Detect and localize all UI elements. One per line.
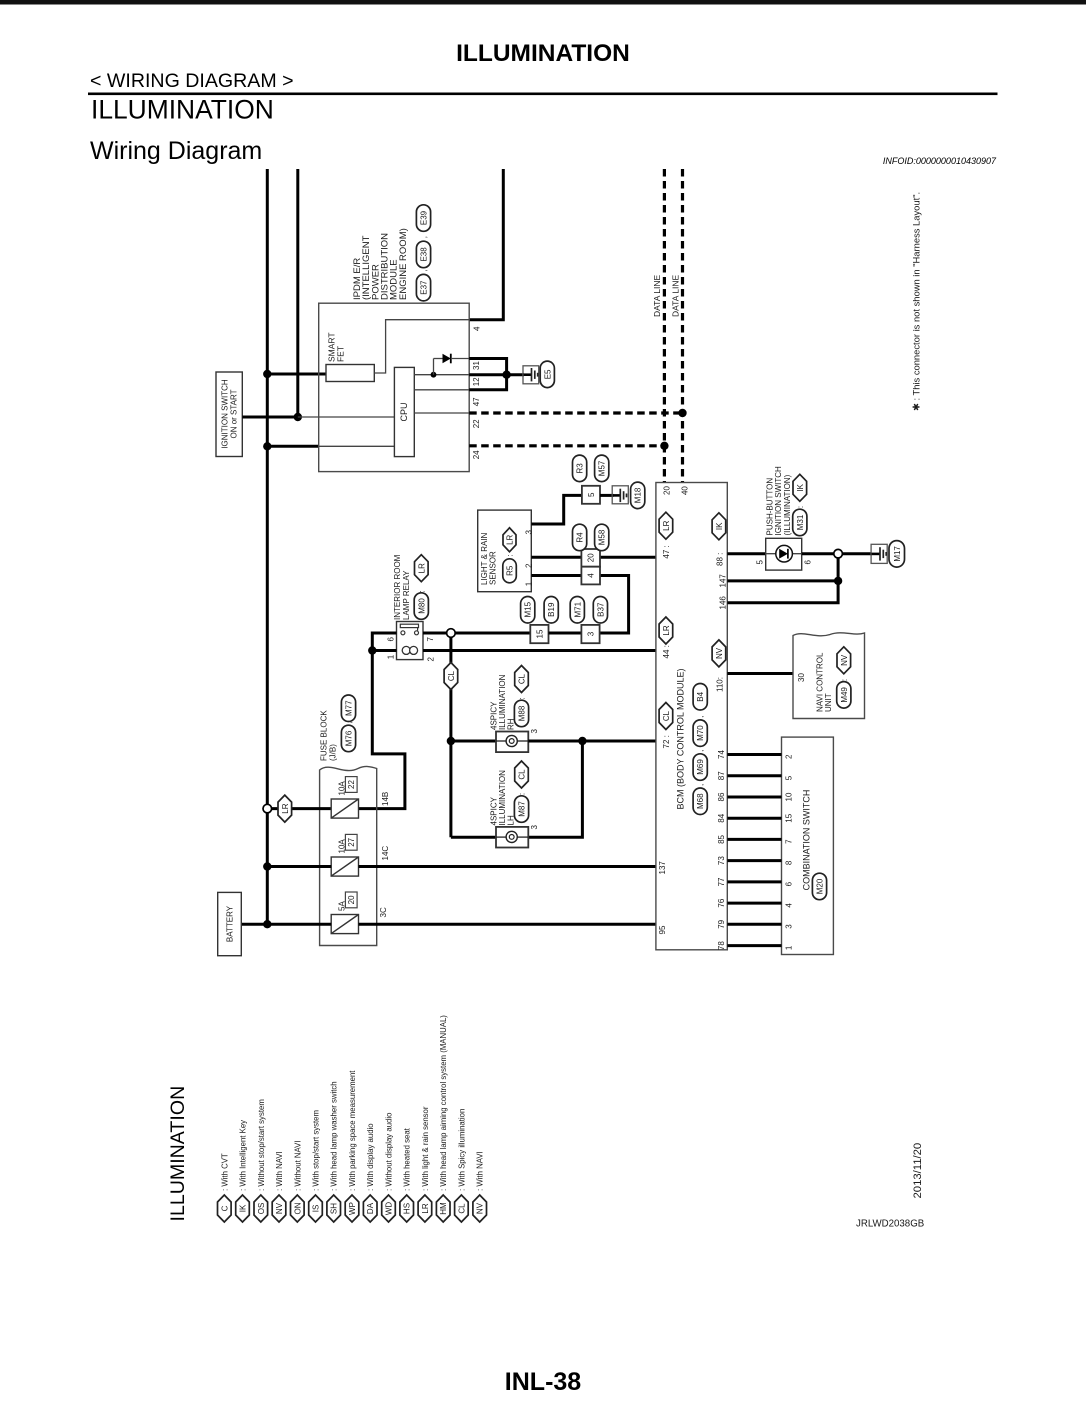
svg-text:M49: M49 [840, 687, 849, 703]
svg-text:ILLUMINATION: ILLUMINATION [456, 40, 630, 67]
splice open circle M17 [834, 549, 843, 558]
wire relay pin7 to connector 15 [423, 632, 530, 635]
node junction LH riser [578, 737, 586, 745]
svg-text:20: 20 [587, 553, 596, 562]
fuse block J/B outline [320, 766, 377, 945]
top border bar [0, 0, 1086, 5]
node junction spicy RH [447, 737, 455, 745]
svg-text:LR: LR [281, 803, 290, 813]
svg-text:3C: 3C [379, 907, 388, 917]
node junction battery/V1 [263, 920, 271, 928]
svg-text:IK: IK [796, 483, 805, 491]
connector R3 [573, 455, 587, 482]
svg-text:LR: LR [662, 625, 671, 635]
BCM connector list M68 M69 M70 B4 [693, 788, 707, 815]
svg-text:3: 3 [530, 825, 539, 830]
relay box M80 [397, 622, 424, 660]
svg-text:44 :: 44 : [662, 645, 671, 658]
svg-text:HS: HS [403, 1203, 412, 1214]
data line vertical 2 [681, 169, 684, 483]
svg-text:6: 6 [386, 637, 395, 642]
svg-text:(J/B): (J/B) [328, 744, 337, 761]
svg-text:IK: IK [715, 522, 724, 530]
connector M71 [570, 597, 584, 624]
wire relay feed down to fuse 14B [359, 651, 405, 809]
legend OS [254, 1195, 268, 1222]
battery box [218, 892, 242, 955]
svg-text:1: 1 [386, 654, 395, 659]
wire BCM 110 to NAVI [727, 672, 793, 675]
connector B19 [544, 597, 558, 624]
node junction data line 1 [660, 442, 668, 450]
svg-text:M76: M76 [345, 730, 354, 746]
svg-text:LR: LR [417, 563, 426, 573]
wire sensor pin1 [531, 574, 600, 577]
svg-text:M80: M80 [417, 598, 426, 614]
svg-text:NAVI CONTROL: NAVI CONTROL [815, 652, 824, 712]
svg-text:ILLUMINATION: ILLUMINATION [167, 1086, 189, 1222]
svg-text:E38: E38 [420, 247, 429, 262]
connector R5 : LR inside sensor [503, 559, 517, 583]
wire fuse 27 to BCM 137 [359, 865, 656, 868]
svg-text:: With Intelligent Key: : With Intelligent Key [239, 1120, 248, 1191]
svg-text:12: 12 [472, 377, 481, 386]
svg-text:JRLWD2038GB: JRLWD2038GB [856, 1219, 924, 1230]
node junction data line 2 [678, 409, 686, 417]
connector E5 [540, 361, 554, 388]
svg-text:,: , [696, 750, 705, 752]
svg-text:M70: M70 [696, 725, 705, 741]
svg-text:M88: M88 [518, 705, 527, 721]
svg-text:E39: E39 [420, 210, 429, 225]
wire V1 to fuse 27 [267, 865, 331, 868]
connector M17 [889, 541, 905, 568]
bold loop pins 31/12/47 [469, 359, 506, 390]
svg-text:2: 2 [525, 563, 534, 568]
wire ignition row into IPDM (CPU pin) [298, 416, 395, 418]
connector M80 : LR [414, 593, 428, 620]
wire relay pin6 [372, 633, 396, 651]
spicy illumination LH lamp [496, 827, 528, 848]
svg-text:27: 27 [347, 837, 356, 846]
svg-text:4: 4 [785, 903, 794, 908]
wire LH riser [528, 741, 582, 837]
wire CPU pin22 row [414, 412, 469, 414]
wire BCM 88 to push-button [727, 552, 765, 555]
svg-text:CL: CL [518, 673, 527, 684]
svg-text:IS: IS [312, 1205, 321, 1213]
svg-text:LR: LR [662, 520, 671, 530]
svg-text:8: 8 [785, 860, 794, 865]
combination switch box [782, 737, 834, 954]
wire CPU pin47 row [414, 389, 469, 391]
svg-text:B4: B4 [696, 691, 705, 701]
svg-text:< WIRING DIAGRAM >: < WIRING DIAGRAM > [90, 70, 294, 92]
svg-text:R4: R4 [576, 532, 585, 543]
svg-text:INL-38: INL-38 [505, 1368, 582, 1396]
wire BCM 146 riser [727, 554, 838, 603]
svg-text:24: 24 [472, 450, 481, 459]
svg-text:NV: NV [476, 1202, 485, 1214]
svg-text:M20: M20 [816, 878, 825, 894]
legend LR [418, 1195, 432, 1222]
connector E37 [416, 274, 430, 301]
svg-text:Wiring Diagram: Wiring Diagram [90, 137, 262, 165]
connector M57 [595, 455, 609, 482]
wire BCM 87 to switch 5 [727, 774, 781, 777]
svg-text::: : [506, 554, 515, 556]
wire color label CL [444, 663, 458, 690]
inline connector box 5 [582, 486, 600, 504]
svg-text:: With light & rain sensor: : With light & rain sensor [421, 1106, 430, 1191]
svg-text:: With display audio: : With display audio [366, 1123, 375, 1191]
wire to spicy RH lamp [451, 740, 496, 743]
wire relay pin2 to BCM 44 [423, 649, 656, 652]
legend DA [363, 1195, 377, 1222]
connector M76 , M77 [341, 725, 355, 752]
svg-text:76: 76 [717, 898, 726, 907]
svg-text:1: 1 [785, 945, 794, 950]
wire V1 row to CPU lower pin [267, 445, 318, 448]
svg-text::: : [518, 697, 527, 699]
svg-text:22: 22 [472, 419, 481, 428]
node junction V1 lower row [263, 442, 271, 450]
legend NV [272, 1195, 286, 1222]
svg-text:6: 6 [804, 560, 813, 565]
svg-text:FUSE BLOCK: FUSE BLOCK [320, 710, 329, 761]
ignition switch box [216, 372, 242, 457]
svg-text:77: 77 [717, 877, 726, 886]
fuse 10A 27 [331, 857, 358, 876]
svg-text:137: 137 [658, 861, 667, 875]
svg-text:: With stop/start system: : With stop/start system [312, 1110, 321, 1191]
svg-text:95: 95 [658, 925, 667, 934]
legend IS [309, 1195, 323, 1222]
svg-text:CL: CL [518, 769, 527, 780]
svg-text:DATA LINE: DATA LINE [670, 274, 680, 317]
connector R4 [573, 524, 587, 551]
svg-text:: Without NAVI: : Without NAVI [293, 1140, 302, 1191]
svg-text:LR: LR [421, 1203, 430, 1213]
svg-text:CL: CL [447, 670, 456, 681]
svg-text:86: 86 [717, 792, 726, 801]
svg-text:(ILLUMINATION): (ILLUMINATION) [783, 474, 792, 535]
svg-text:SH: SH [330, 1203, 339, 1214]
svg-text:LAMP RELAY: LAMP RELAY [402, 570, 411, 620]
connector E39 [416, 205, 430, 232]
svg-text:84: 84 [717, 813, 726, 822]
svg-text:R5: R5 [506, 565, 515, 576]
IPDM E/R box [319, 303, 470, 471]
wire CL branch vertical [449, 637, 452, 837]
svg-text:E37: E37 [420, 280, 429, 295]
svg-text:14B: 14B [381, 792, 390, 806]
wire CPU pin12 row [414, 374, 469, 376]
wire V1 to SMART FET row [267, 373, 326, 376]
node junction V1 smart-fet row [263, 370, 271, 378]
svg-text:146: 146 [718, 596, 727, 610]
CPU box [394, 367, 414, 456]
connector M18 [631, 482, 645, 509]
svg-text:M69: M69 [696, 759, 705, 775]
wire sensor pin2 to BCM 47 [531, 556, 656, 559]
wire BCM 85 to switch 7 [727, 838, 781, 841]
svg-text:47 :: 47 : [662, 545, 671, 558]
svg-text:NV: NV [840, 654, 849, 666]
wire BCM 79 to switch 3 [727, 923, 781, 926]
svg-text:ILLUMINATION: ILLUMINATION [91, 94, 274, 124]
ground M17 [871, 544, 887, 563]
svg-text:79: 79 [717, 919, 726, 928]
ground E5 [507, 373, 524, 376]
legend ON [291, 1195, 305, 1222]
svg-text:30: 30 [797, 673, 806, 682]
connector M49 : NV [837, 682, 851, 709]
wire CL to spicy LH lamp [451, 836, 496, 839]
svg-text:M77: M77 [345, 700, 354, 716]
connector M15 [521, 597, 535, 624]
svg-text:E5: E5 [543, 369, 552, 379]
svg-text:DATA LINE: DATA LINE [652, 274, 662, 317]
svg-text:72 :: 72 : [662, 735, 671, 748]
NAVI control unit box [793, 633, 865, 719]
svg-text:5: 5 [756, 560, 765, 565]
connector M58 [595, 524, 609, 551]
svg-text:DA: DA [366, 1202, 375, 1214]
svg-text:M87: M87 [518, 801, 527, 817]
svg-text:: With Spicy illumination: : With Spicy illumination [457, 1109, 466, 1191]
wire BCM 77 to switch 6 [727, 880, 781, 883]
svg-text::: : [417, 590, 426, 592]
spicy illumination RH lamp [496, 732, 528, 753]
node junction V2/ignition [294, 413, 302, 421]
legend WP [345, 1195, 359, 1222]
svg-text:1: 1 [525, 581, 534, 586]
smart fet box [326, 365, 374, 382]
svg-text:C: C [220, 1205, 229, 1211]
svg-text:110:: 110: [715, 677, 724, 692]
legend WD [382, 1195, 396, 1222]
wire smart fet to pin 4 row [374, 320, 469, 373]
legend HS [400, 1195, 414, 1222]
svg-text:5: 5 [785, 775, 794, 780]
connector M20 [812, 873, 826, 900]
diode inside IPDM [431, 372, 437, 378]
fuse 5A 20 [331, 915, 358, 934]
svg-text:PUSH-BUTTON: PUSH-BUTTON [765, 478, 774, 536]
wire battery to fuse 20 [241, 923, 331, 926]
wire BCM 73 to switch 8 [727, 859, 781, 862]
svg-text:M17: M17 [893, 546, 902, 562]
legend IK [236, 1195, 250, 1222]
connector E38 [416, 241, 430, 268]
BCM body control module box [656, 483, 727, 950]
svg-text:CL: CL [457, 1203, 466, 1214]
svg-text:IGNITION SWITCH: IGNITION SWITCH [221, 379, 230, 449]
wire color label LR [278, 795, 292, 822]
svg-text:3: 3 [530, 729, 539, 734]
svg-text:87: 87 [717, 771, 726, 780]
svg-text:NV: NV [275, 1202, 284, 1214]
node junction 147 [834, 577, 842, 585]
legend HM [436, 1195, 450, 1222]
svg-text:: With parking space measureme: : With parking space measurement [348, 1070, 357, 1191]
wire BCM 86 to switch 10 [727, 796, 781, 799]
svg-text:B19: B19 [547, 602, 556, 617]
svg-text:88 :: 88 : [715, 553, 724, 566]
svg-text:74: 74 [717, 750, 726, 759]
svg-text:COMBINATION SWITCH: COMBINATION SWITCH [802, 790, 812, 891]
svg-text:M18: M18 [634, 487, 643, 503]
svg-text:47: 47 [472, 397, 481, 406]
node splice open circle [447, 629, 456, 638]
fuse 10A 22 [331, 799, 358, 818]
svg-text:20: 20 [663, 486, 672, 495]
svg-text:IGNITION SWITCH: IGNITION SWITCH [774, 466, 783, 536]
wire between connectors 15 and 3 [549, 632, 582, 635]
wire ignition feed vertical V2 [296, 169, 299, 417]
connector M31 : IK [793, 509, 807, 536]
svg-text:2: 2 [785, 754, 794, 759]
dashed wire pin24 to data line 1 [469, 444, 664, 447]
node junction fuse27 [263, 862, 271, 870]
relay coil [402, 646, 410, 654]
legend SH [327, 1195, 341, 1222]
svg-text:: With head lamp aiming contro: : With head lamp aiming control system (… [439, 1015, 448, 1191]
relay contact [400, 624, 418, 627]
svg-text:4SPICY: 4SPICY [489, 796, 498, 825]
svg-text:: Without display audio: : Without display audio [385, 1112, 394, 1191]
svg-text:UNIT: UNIT [824, 693, 833, 712]
svg-text:M57: M57 [598, 460, 607, 476]
svg-text:31: 31 [472, 361, 481, 370]
svg-text:22: 22 [347, 780, 356, 789]
wire fuse 20 to BCM 95 [359, 923, 656, 926]
svg-text::: : [518, 793, 527, 795]
svg-text:FET: FET [336, 346, 346, 362]
svg-text::: : [840, 679, 849, 681]
ground M18 [600, 494, 614, 497]
svg-text:7: 7 [426, 637, 435, 642]
LED symbol [776, 545, 793, 562]
connector M87 : CL [514, 796, 528, 823]
wire LR to fuse 22 [271, 807, 331, 810]
svg-text:: With CVT: : With CVT [220, 1153, 229, 1191]
svg-text:ON: ON [293, 1202, 302, 1214]
svg-text:: With NAVI: : With NAVI [275, 1151, 284, 1191]
data line vertical 1 [663, 169, 666, 483]
svg-text:R3: R3 [576, 463, 585, 474]
svg-text:3: 3 [785, 924, 794, 929]
svg-text:INTERIOR ROOM: INTERIOR ROOM [393, 554, 402, 620]
svg-text:4SPICY: 4SPICY [489, 701, 498, 730]
dashed wire pin22 to data line 2 [469, 411, 682, 414]
svg-text:M68: M68 [696, 793, 705, 809]
wire BCM 84 to switch 15 [727, 817, 781, 820]
svg-text:CPU: CPU [399, 402, 409, 421]
header rule [88, 93, 998, 96]
svg-text:40: 40 [681, 486, 690, 495]
wire BCM 147 [727, 579, 838, 582]
wire relay pin1 [372, 649, 396, 652]
svg-text:15: 15 [536, 629, 545, 638]
wire BCM 78 to switch 1 [727, 944, 781, 947]
wire IPDM pin4 feed vertical V3 [469, 169, 503, 320]
svg-text:,: , [696, 784, 705, 786]
svg-text:M58: M58 [598, 529, 607, 545]
svg-text:4: 4 [472, 326, 481, 331]
connector B37 [593, 597, 607, 624]
legend C [218, 1195, 232, 1222]
svg-text:3: 3 [525, 530, 534, 535]
svg-text:M15: M15 [524, 601, 533, 617]
svg-text:B37: B37 [596, 602, 605, 617]
svg-text:ENGINE ROOM): ENGINE ROOM) [398, 228, 409, 300]
wire spicy RH to BCM 72 [528, 740, 656, 743]
svg-text:20: 20 [347, 895, 356, 904]
svg-text:INFOID:0000000010430907: INFOID:0000000010430907 [883, 156, 997, 166]
svg-text:WP: WP [348, 1202, 357, 1215]
svg-text:SENSOR: SENSOR [489, 551, 498, 585]
svg-text:: With heated seat: : With heated seat [403, 1127, 412, 1191]
inline connector stack 20/4 [581, 549, 600, 567]
wire push-button to ground [802, 552, 871, 555]
svg-text:7: 7 [785, 839, 794, 844]
svg-text:✱ : This connector is not show: ✱ : This connector is not shown in "Harn… [911, 192, 922, 411]
inline connector box 15 [530, 625, 548, 643]
wire BCM 76 to switch 4 [727, 902, 781, 905]
svg-text:ON or START: ON or START [230, 389, 239, 438]
svg-text:78: 78 [717, 941, 726, 950]
svg-text:,: , [420, 269, 429, 271]
svg-text:: With head lamp washer switch: : With head lamp washer switch [330, 1081, 339, 1191]
svg-text:73: 73 [717, 856, 726, 865]
svg-text:M71: M71 [573, 601, 582, 617]
legend NV [473, 1195, 487, 1222]
svg-text:NV: NV [715, 647, 724, 659]
svg-text:: Without stop/start system: : Without stop/start system [257, 1099, 266, 1191]
node junction E5 tap [502, 371, 510, 379]
svg-text:BATTERY: BATTERY [226, 905, 235, 942]
svg-text:LR: LR [506, 534, 515, 544]
svg-text::: : [796, 506, 805, 508]
svg-text:M31: M31 [796, 514, 805, 530]
node junction relay feed [368, 646, 376, 654]
svg-text:CL: CL [662, 710, 671, 721]
svg-text:85: 85 [717, 834, 726, 843]
legend CL [455, 1195, 469, 1222]
svg-text:15: 15 [785, 813, 794, 822]
svg-text:HM: HM [439, 1202, 448, 1215]
svg-text:147: 147 [718, 574, 727, 588]
svg-text:14C: 14C [381, 846, 390, 861]
svg-text:5: 5 [587, 492, 596, 497]
push-button box [766, 538, 802, 570]
svg-text:OS: OS [257, 1203, 266, 1215]
svg-text:10: 10 [785, 792, 794, 801]
svg-text:,: , [420, 236, 429, 238]
svg-text:2: 2 [427, 657, 436, 662]
svg-text:,: , [696, 716, 705, 718]
svg-text:IK: IK [239, 1204, 248, 1212]
svg-text:BCM (BODY CONTROL MODULE): BCM (BODY CONTROL MODULE) [675, 668, 685, 809]
wire battery feed vertical V1 [266, 169, 269, 924]
svg-text:: With NAVI: : With NAVI [476, 1151, 485, 1191]
light & rain sensor box [478, 510, 532, 592]
wire ignition switch to V2 [242, 416, 297, 419]
svg-text:2013/11/20: 2013/11/20 [912, 1143, 924, 1199]
inline connector box 3 [581, 625, 599, 643]
